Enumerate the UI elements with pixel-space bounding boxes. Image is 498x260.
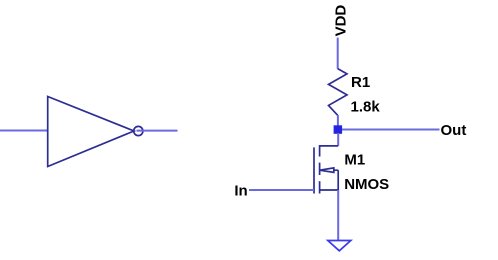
inverter bubble bbox=[134, 126, 143, 135]
wire VDD to resistor bbox=[337, 38, 339, 69]
svg-text:Out: Out bbox=[441, 122, 467, 139]
svg-text:NMOS: NMOS bbox=[344, 176, 389, 193]
bulk to source tie bbox=[337, 170, 339, 190]
bulk stub with arrow bbox=[320, 168, 339, 173]
drain stub bbox=[320, 145, 339, 147]
transistor M1 NMOS symbol bbox=[314, 145, 338, 194]
channel segment bulk bbox=[319, 163, 321, 175]
channel segment source bbox=[319, 181, 321, 193]
inverter triangle bbox=[48, 97, 134, 167]
svg-text:R1: R1 bbox=[351, 74, 370, 91]
svg-text:VDD: VDD bbox=[333, 5, 350, 37]
wire source to ground bbox=[337, 190, 339, 241]
svg-text:1.8k: 1.8k bbox=[351, 99, 381, 116]
wire resistor to node bbox=[337, 115, 339, 126]
node junction square bbox=[334, 125, 343, 134]
source stub bbox=[320, 189, 339, 191]
svg-text:M1: M1 bbox=[344, 152, 365, 169]
gate bar bbox=[313, 147, 315, 193]
wire gate In bbox=[249, 189, 314, 191]
wire inverter input bbox=[0, 130, 48, 132]
resistor R1 bbox=[329, 69, 348, 116]
wire inverter output bbox=[137, 130, 178, 132]
wire node to Out bbox=[342, 129, 440, 131]
svg-text:In: In bbox=[234, 182, 247, 199]
ground symbol bbox=[328, 241, 351, 251]
channel segment drain bbox=[319, 145, 321, 157]
wire drain bbox=[337, 133, 339, 146]
